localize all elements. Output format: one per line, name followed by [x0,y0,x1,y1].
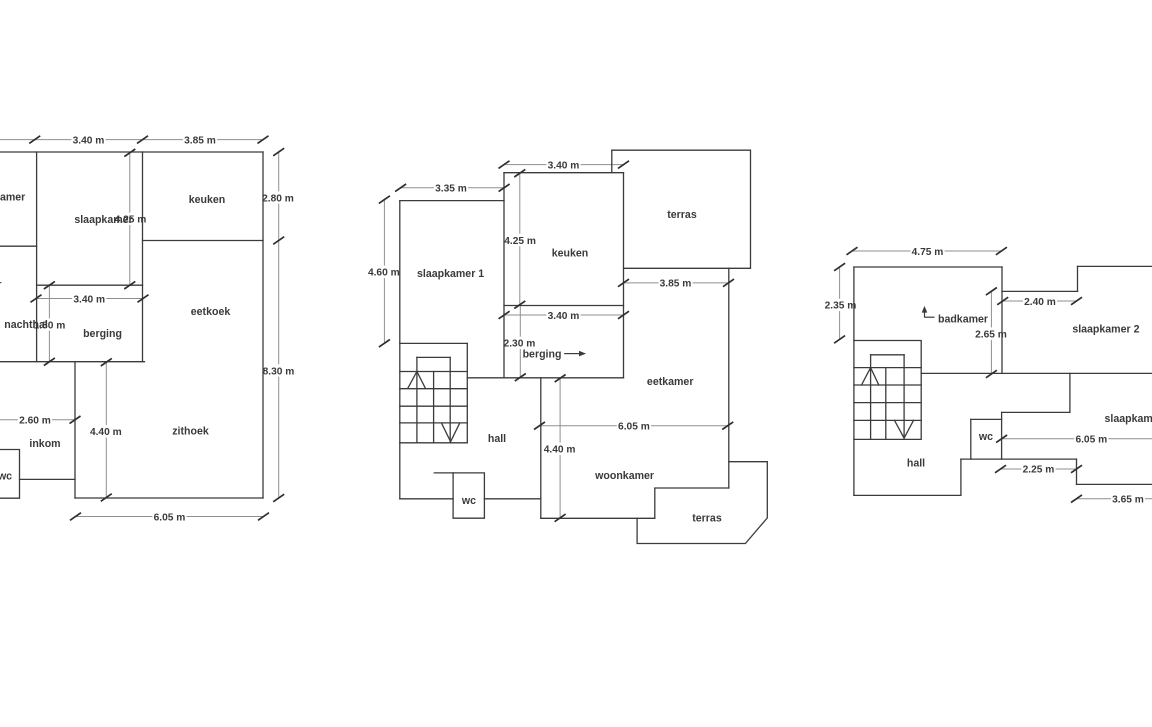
svg-text:3.40 m: 3.40 m [548,311,580,322]
svg-text:wc: wc [0,470,12,482]
svg-text:3.65 m: 3.65 m [1112,495,1144,506]
svg-text:4.75 m: 4.75 m [912,247,944,258]
svg-text:3.85 m: 3.85 m [184,135,216,146]
svg-text:2.40 m: 2.40 m [1024,297,1056,308]
svg-text:slaapkamer 1: slaapkamer 1 [417,268,484,280]
svg-text:wc: wc [978,431,993,443]
svg-text:keuken: keuken [189,194,226,206]
svg-text:terras: terras [692,513,722,525]
svg-text:eetkoek: eetkoek [191,306,231,318]
svg-text:r: r [0,279,2,291]
svg-text:slaapkamer: slaapkamer [0,192,25,204]
svg-text:keuken: keuken [552,248,589,260]
svg-text:wc: wc [461,495,476,507]
svg-text:badkamer: badkamer [938,313,988,325]
svg-text:3.40 m: 3.40 m [73,294,105,305]
svg-text:3.35 m: 3.35 m [435,184,467,195]
svg-text:3.85 m: 3.85 m [660,279,692,290]
svg-text:zithoek: zithoek [172,425,209,437]
svg-text:2.80 m: 2.80 m [262,193,294,204]
svg-text:6.05 m: 6.05 m [154,512,186,523]
svg-text:3.40 m: 3.40 m [73,135,105,146]
svg-text:nachthal: nachthal [4,319,48,331]
svg-text:berging: berging [523,349,562,361]
svg-text:4.40 m: 4.40 m [544,445,576,456]
svg-text:hall: hall [907,457,925,469]
svg-text:eetkamer: eetkamer [647,376,694,388]
svg-text:4.60 m: 4.60 m [368,268,400,279]
svg-text:6.05 m: 6.05 m [1075,435,1107,446]
svg-text:6.05 m: 6.05 m [618,422,650,433]
svg-text:4.25 m: 4.25 m [504,236,536,247]
svg-text:woonkamer: woonkamer [594,470,654,482]
svg-text:terras: terras [667,209,697,221]
svg-text:2.35 m: 2.35 m [825,301,857,312]
svg-text:2.25 m: 2.25 m [1023,464,1055,475]
svg-text:4.40 m: 4.40 m [90,427,122,438]
svg-text:2.60 m: 2.60 m [19,416,51,427]
svg-text:slaapkamer 2: slaapkamer 2 [1072,324,1139,336]
svg-text:hall: hall [488,433,506,445]
svg-text:slaapkamer 3: slaapkamer 3 [1105,413,1152,425]
svg-text:2.65 m: 2.65 m [975,329,1007,340]
svg-text:3.40 m: 3.40 m [548,160,580,171]
svg-text:8.30 m: 8.30 m [263,366,295,377]
svg-text:inkom: inkom [29,438,60,450]
svg-text:slaapkamer: slaapkamer [74,214,132,226]
svg-text:berging: berging [83,328,122,340]
